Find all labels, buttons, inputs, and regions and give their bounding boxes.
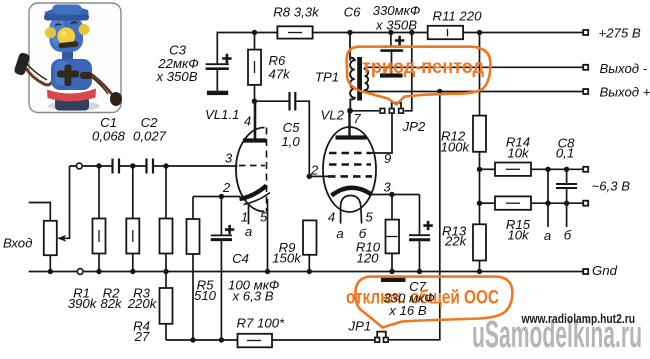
TP1 secondary winding [365,67,369,91]
svg-text:Вход: Вход [3,236,32,251]
wire top rail R8 to R11 [313,32,428,34]
svg-text:ТР1: ТР1 [315,70,339,85]
junction top rail at R6 [252,30,257,35]
resistor R3 [160,166,173,272]
svg-text:5: 5 [365,210,373,225]
junction tap a upper [545,167,550,172]
svg-text:R7 100*: R7 100* [237,316,286,331]
svg-text:3: 3 [383,180,391,195]
svg-text:VL1.1: VL1.1 [205,107,239,122]
wire feedback tap (Выход+ down to JP1) [389,92,440,340]
wire +275V top rail [217,33,277,65]
junction R6 bottom / VL1 anode / C5 [252,99,257,104]
wire anode to JP2 pin1 [350,110,379,112]
svg-text:JP2: JP2 [402,119,426,134]
svg-text:4: 4 [328,210,335,225]
resistor R5 [187,197,200,341]
wire Выход+ line (secondary bottom to terminal) [368,91,583,93]
TP1 primary lead to anode [349,99,351,111]
svg-text:47k: 47k [269,67,292,82]
svg-text:a: a [544,228,551,243]
wire signal line (input to VL1 grid) [70,165,238,167]
wire divider mid segment [479,169,481,224]
photo of plasticine figure (top-left) [13,3,122,113]
svg-text:0,027: 0,027 [133,129,167,144]
svg-text:4: 4 [244,114,251,129]
jumper JP1 pin 2 [384,338,389,343]
junction top rail at TP1 primary [347,30,352,35]
VL1.1 cathode arc pin 2 [240,186,267,200]
junction feedback C4 [219,337,224,342]
resistor R14 [480,163,583,176]
resistor R8 [277,26,312,38]
svg-text:22k: 22k [444,234,468,249]
junction VL2 anode / TP1 / JP2 [347,108,353,114]
VL1.1 heater lead pin 1 [248,203,250,225]
terminal Gnd [583,269,588,274]
VL2 heater arc [341,196,361,207]
svg-text:5: 5 [260,210,268,225]
junction gnd R13 [477,269,482,274]
pentode VL2 [323,111,376,224]
junction signal line R1 [96,163,101,168]
svg-text:Выход -: Выход - [600,61,648,76]
resistor R1 [93,166,106,272]
VL2 control grid (dashed) [328,175,372,178]
junction divider R12/R14 [477,167,482,172]
svg-text:х 16 В: х 16 В [388,303,427,318]
resistor R15 [480,196,583,209]
junction tap a lower [545,201,550,206]
capacitor C8 [556,169,577,227]
capacitor C2 [147,159,154,174]
junction gnd C7 [417,269,422,274]
resistor R10 [386,195,400,272]
potentiometer (volume) [44,221,57,272]
capacitor C6 (electrolytic filter) [380,33,404,74]
svg-text:б: б [564,228,572,243]
junction feedback R5 [190,337,195,342]
junction VL2 grid / R9 top [307,174,312,179]
junction cathode line C4 [219,194,224,199]
svg-text:150k: 150k [272,251,302,266]
junction tap б lower [564,201,569,206]
VL2 anode plate [336,135,367,139]
VL2 envelope [323,127,376,212]
VL2 anode lead pin 7 [348,111,350,136]
triode VL1.1 [236,101,270,271]
wire C5 right lead to VL2 grid [295,101,309,176]
svg-text:100k: 100k [441,140,471,155]
resistor R7 [238,334,273,348]
svg-text:R11 220: R11 220 [433,9,483,24]
svg-text:2: 2 [222,180,231,195]
resistor R2 [126,166,139,272]
wire Выход- line (secondary top to terminal) [367,66,583,68]
svg-text:0,1: 0,1 [556,146,574,161]
capacitor C1 [113,159,120,174]
wire pentode feed (rail to JP2 pin3) [405,33,412,111]
svg-text:JP1: JP1 [348,319,372,334]
junction signal line R2 [130,163,135,168]
svg-text:7: 7 [353,111,361,126]
svg-text:C5: C5 [283,120,301,135]
svg-text:www.radiolamp.hut2.ru: www.radiolamp.hut2.ru [521,311,635,326]
svg-text:Выход +: Выход + [600,85,650,100]
VL1.1 grid (dashed) pin 3 [239,165,265,167]
svg-text:10k: 10k [507,228,530,243]
jumper JP2 pin 1 [380,109,385,114]
wire input stub to pot [29,203,51,221]
terminal ~6,3 В lower [583,201,588,206]
svg-text:х 350В: х 350В [375,18,417,33]
svg-text:VL2: VL2 [321,108,345,123]
junction top rail at R12 divider [477,30,482,35]
svg-text:a: a [245,224,252,239]
junction gnd R2 [130,269,135,274]
VL1.1 heater arc [244,193,271,205]
svg-text:1: 1 [241,210,248,225]
resistor R12 [473,33,486,170]
junction Выход+ to feedback tap [437,89,442,94]
TP1 primary winding [350,58,355,100]
resistor R6 [248,33,261,102]
junction gnd R1 [96,269,101,274]
svg-text:0,068: 0,068 [92,129,126,144]
ground symbol below C6 [380,73,403,77]
VL2 cathode arc pin 3 [332,188,372,196]
VL1.1 anode plate [243,138,266,142]
junction top rail at C6 [388,30,393,35]
svg-text:9: 9 [384,151,392,166]
svg-text:C6: C6 [344,5,362,20]
wire heater tap a [547,169,549,227]
resistor R13 [473,224,486,271]
wire VL1 cathode (pin 2) line [193,196,241,198]
wire R7 to JP1 [272,339,374,341]
junction gnd R3/R4 [163,269,168,274]
jumper JP1 bracket [377,332,386,338]
svg-text:R8 3,3k: R8 3,3k [273,5,320,20]
resistor R4 [160,272,173,341]
wire C5 left lead [255,100,290,102]
svg-text:220k: 220k [127,296,158,311]
svg-text:10k: 10k [507,146,530,161]
capacitor C7 (electrolytic) [409,195,433,272]
svg-text:3: 3 [225,151,233,166]
wire VL2 screen pin 9 to JP2 [371,114,392,153]
svg-text:х 6,3 В: х 6,3 В [232,289,274,304]
connector circle input ground [77,269,83,275]
VL1.1 split line (dashed) [266,128,268,212]
terminal ~6,3 В upper [583,167,588,172]
svg-text:х 350В: х 350В [155,69,197,84]
VL2 heater lead pin 4 [340,206,342,224]
jumper JP2 bracket (pins 2-3) [392,103,401,108]
terminal Выход + [583,89,588,94]
svg-text:Gnd: Gnd [592,263,618,278]
VL2 grid 3 (dashed) [329,163,371,166]
transformer TP1 [350,33,368,111]
VL1.1 envelope [236,128,265,212]
VL2 heater lead pin 5 [360,206,363,224]
resistor R9 [303,220,317,271]
TP1 primary lead from rail [349,33,351,61]
wire VL2 cathode to R10/C7 [372,194,420,196]
VL1.1 heater lead pin 5 [267,199,269,272]
capacitor C4 (electrolytic) [211,197,234,341]
wire ground rail [29,271,583,273]
capacitor C5 [290,92,296,111]
svg-text:C4: C4 [232,251,249,266]
VL1.1 anode lead pin 4 [254,101,257,138]
junction signal line R3 [163,163,168,168]
junction gnd R10 [389,269,394,274]
wire top rail R11 to +275 terminal [463,32,582,34]
junction divider R15 [477,201,482,206]
svg-text:a: a [336,226,343,241]
junction gnd pot [48,269,53,274]
svg-text:2: 2 [310,163,319,178]
wire VL2 grid entry pin 2 [309,175,328,177]
junction gnd R9 [307,269,312,274]
resistor R11 [428,26,463,39]
VL2 screen grid (dashed) pin 9 row [329,152,371,155]
wire feedback line R4 to R7 [166,339,238,341]
svg-text:1,0: 1,0 [281,134,300,149]
wiper wire with arrow [57,166,70,242]
jumper JP2 pin 2 [389,109,394,114]
terminal Выход - [583,65,588,70]
svg-text:~6,3 В: ~6,3 В [592,179,631,194]
svg-text:330мкФ: 330мкФ [373,3,421,18]
svg-text:510: 510 [194,288,217,303]
svg-text:триод-пентод: триод-пентод [362,56,485,78]
jumper JP2 pin 3 [399,109,404,114]
capacitor C3 (electrolytic to ground) [206,54,232,91]
svg-text:27: 27 [134,329,150,344]
connector circle input signal [76,163,82,169]
svg-text:120: 120 [356,251,379,266]
TP1 core [357,57,362,101]
orange callout blob отключающей ООС [355,277,512,328]
terminal +275 В [583,30,588,35]
junction cathode R10 [389,192,394,197]
svg-text:390k: 390k [68,296,98,311]
ground symbol below rail at R10 [381,277,406,282]
svg-text:82k: 82k [100,296,123,311]
junction tap б upper [564,167,569,172]
orange callout blob триод-пентод [347,47,491,105]
ground symbol below C3 [207,91,228,95]
svg-text:+275 В: +275 В [599,26,641,41]
junction gnd VL1 pin5 [265,269,270,274]
junction top rail at JP2 pentode feed [409,30,414,35]
jumper JP1 pin 1 [375,338,380,343]
